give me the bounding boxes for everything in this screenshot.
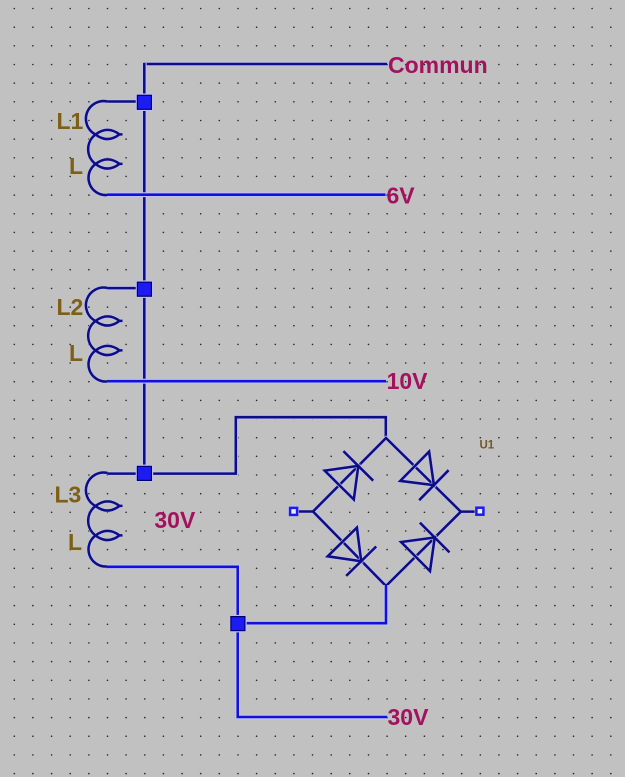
svg-text:6V: 6V (387, 183, 416, 209)
inductor L1 (86, 101, 123, 195)
svg-text:U1: U1 (480, 440, 495, 452)
diode U1 lower-right (401, 523, 449, 572)
svg-text:L: L (69, 153, 83, 179)
svg-text:Commun: Commun (388, 52, 488, 78)
junction J4 30V return (229, 615, 247, 633)
svg-text:L1: L1 (57, 108, 84, 134)
junction J3 bus/L3 (136, 465, 154, 483)
port DC- left terminal (288, 506, 299, 517)
diode U1 upper-right (400, 452, 448, 501)
wire Commun rail (144, 62, 387, 67)
svg-text:L: L (69, 340, 83, 366)
wire L3 bottom lead (107, 567, 238, 620)
junction J2 bus/L2 (136, 280, 154, 298)
wire L3 to bridge AC top (144, 417, 385, 473)
svg-text:30V: 30V (154, 507, 196, 533)
svg-text:10V: 10V (387, 368, 429, 394)
wire 30V output (238, 623, 388, 717)
svg-text:30V: 30V (388, 704, 430, 730)
wire 10V tap (107, 379, 386, 384)
svg-text:L: L (68, 529, 82, 555)
wire bridge AC bottom (238, 585, 386, 623)
svg-text:L2: L2 (57, 294, 84, 320)
junction J1 common/L1 (136, 94, 154, 112)
diode U1 lower-left (328, 528, 377, 576)
diode U1 upper-left (325, 451, 374, 499)
wire L1 top lead (108, 99, 146, 104)
inductor L2 (86, 288, 123, 382)
inductor L3 (86, 473, 123, 567)
wire secondary bus (142, 63, 147, 473)
svg-text:L3: L3 (55, 482, 82, 508)
wire 6V tap (107, 192, 386, 197)
port DC+ right terminal (475, 505, 486, 516)
bridge rectifier U1 body (298, 438, 475, 586)
wire L2 top lead (108, 286, 146, 291)
wire L3 top lead (108, 471, 146, 476)
